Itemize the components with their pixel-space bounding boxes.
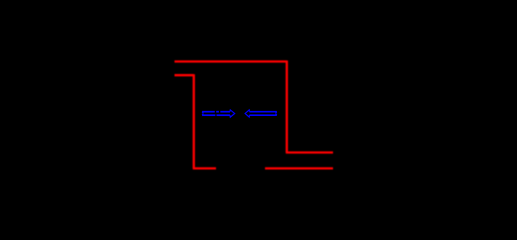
wire bottom-right stub	[265, 167, 333, 169]
wire right mid horizontal	[286, 151, 333, 153]
wire left vertical	[193, 74, 195, 168]
wire right vertical	[286, 61, 288, 153]
wire upper-left lead	[175, 60, 287, 62]
current arrow right (points left toward gap)	[245, 110, 277, 117]
current arrow left (points right toward gap)	[202, 110, 235, 117]
wire lower-left lead	[175, 74, 194, 76]
wire bottom-left stub	[193, 167, 216, 169]
